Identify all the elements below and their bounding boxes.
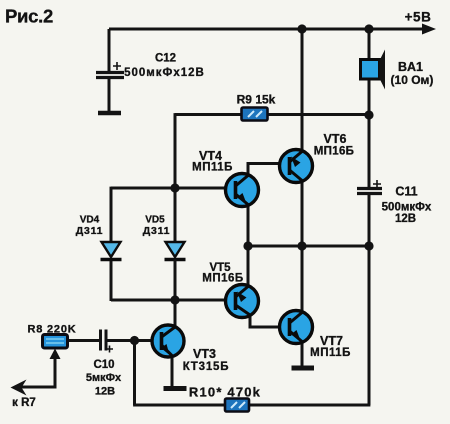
node junction dot (369,246): [364, 241, 373, 250]
label C12 value: [124, 53, 205, 80]
diode VD4: [101, 242, 122, 260]
svg-text:Д311: Д311: [76, 225, 104, 237]
node junction dot (134.5,340): [130, 336, 139, 345]
svg-text:VT7: VT7: [320, 334, 343, 348]
resistor R9: [242, 108, 268, 121]
node junction dot (175,188): [170, 183, 179, 192]
svg-text:VT3: VT3: [193, 347, 216, 361]
label VT7 МП11Б: [310, 334, 351, 359]
svg-text:к R7: к R7: [12, 397, 36, 409]
svg-text:КТ315Б: КТ315Б: [183, 361, 230, 373]
svg-text:R10* 470k: R10* 470k: [189, 385, 261, 400]
svg-text:5мкФх: 5мкФх: [86, 372, 122, 384]
svg-text:12В: 12В: [395, 213, 416, 225]
transistor VT3: [106, 325, 184, 386]
label VD5 Д311: [143, 215, 171, 238]
label C11 value: [382, 185, 432, 226]
node junction dot (302,29): [297, 24, 306, 33]
svg-text:VT6: VT6: [324, 132, 347, 146]
wire right riser x=369: [368, 246, 371, 405]
svg-text:BA1: BA1: [398, 60, 423, 74]
svg-text:C10: C10: [93, 359, 114, 371]
+5V arrow: [422, 24, 436, 35]
svg-text:R9 15k: R9 15k: [237, 93, 276, 107]
transistor VT5: [226, 246, 282, 327]
wire R9 horizontal: [175, 113, 369, 116]
node junction dot (302,246): [297, 241, 306, 250]
wire VD4 branch vertical x=111: [110, 187, 113, 301]
ground C12 terminal bar: [98, 111, 121, 116]
wire mid rail y=246: [248, 245, 369, 248]
svg-text:Д311: Д311: [143, 225, 171, 237]
resistor R8: [43, 335, 68, 349]
svg-text:500мкФх: 500мкФх: [382, 202, 432, 214]
node junction dot (369,115): [364, 110, 373, 119]
capacitor C12: [96, 62, 124, 78]
diode VD5: [165, 242, 186, 260]
wire VT3 collector riser: [174, 300, 177, 328]
node junction dot (175,300): [170, 295, 179, 304]
wire bottom rail y=405: [133, 404, 370, 407]
ground VT3 emitter bar: [164, 386, 187, 391]
wire to R7 arrow: [11, 380, 27, 396]
wire base line y=188: [111, 187, 228, 190]
wire C11 bottom to rail: [368, 195, 371, 246]
node junction dot (369,29): [364, 24, 373, 33]
svg-text:МП11Б: МП11Б: [310, 347, 351, 359]
svg-text:C12: C12: [155, 53, 176, 65]
speaker BA1: [361, 50, 386, 90]
wire C12 stem top: [108, 29, 111, 71]
svg-text:VD4: VD4: [80, 215, 100, 226]
svg-text:МП16Б: МП16Б: [202, 273, 243, 285]
svg-text:(10 Ом): (10 Ом): [391, 73, 434, 87]
svg-text:+5В: +5В: [405, 10, 432, 25]
transistor VT7: [280, 246, 313, 366]
capacitor C11: [357, 180, 382, 194]
label C10 value: [86, 359, 122, 398]
svg-text:C11: C11: [395, 185, 417, 199]
label VD4 Д311: [76, 215, 104, 238]
wire lower base rail y=300: [111, 299, 227, 302]
wire +5V top rail: [109, 28, 424, 31]
wire left vertical x=175 upper: [174, 113, 177, 242]
node junction dot (248,246): [243, 241, 252, 250]
svg-text:12В: 12В: [95, 386, 115, 398]
wire VD5 to lower rail: [174, 259, 177, 302]
svg-text:Рис.2: Рис.2: [5, 6, 53, 27]
wire C10 left: [67, 339, 100, 342]
wire C12 stem bottom: [108, 79, 111, 111]
transistor VT6: [280, 29, 313, 246]
resistor R10: [225, 399, 249, 412]
label BA1 (10 Ом): [391, 60, 434, 87]
svg-text:МП16Б: МП16Б: [314, 146, 354, 158]
label VT3 КТ315Б: [183, 347, 230, 373]
label VT5 МП16Б: [202, 262, 243, 285]
ground VT7 emitter bar: [292, 366, 315, 371]
transistor VT4: [226, 164, 282, 247]
svg-text:VD5: VD5: [145, 215, 165, 226]
wire R8 wiper arrow: [21, 349, 61, 388]
capacitor C10: [101, 330, 114, 353]
svg-text:R8 220K: R8 220K: [27, 324, 76, 336]
wire R10 branch down: [133, 341, 136, 406]
svg-text:МП11Б: МП11Б: [192, 162, 233, 174]
label VT6 МП16Б: [314, 132, 354, 158]
wire speaker stem: [368, 29, 371, 187]
label VT4 МП11Б: [192, 149, 233, 174]
svg-text:500мкФх12В: 500мкФх12В: [124, 67, 205, 79]
